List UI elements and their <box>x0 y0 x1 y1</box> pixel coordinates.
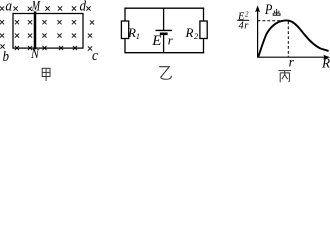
svg-text:c: c <box>92 48 99 64</box>
wire right branch <box>203 8 205 21</box>
magnetic field crosses row 4 <box>0 44 92 50</box>
svg-text:N: N <box>30 47 40 62</box>
svg-text:r: r <box>168 33 174 48</box>
caption yi <box>159 67 171 80</box>
svg-text:P: P <box>264 1 272 17</box>
wire middle branch upper <box>163 8 165 30</box>
magnetic field crosses row 3 <box>0 34 92 38</box>
magnetic field crosses row 1 <box>0 6 91 10</box>
svg-text:R: R <box>127 25 136 40</box>
y axis <box>257 8 259 57</box>
rod MN <box>34 11 37 49</box>
svg-text:M: M <box>31 0 41 14</box>
svg-text:R: R <box>321 56 330 71</box>
svg-text:R: R <box>185 25 194 40</box>
caption jia <box>42 68 50 81</box>
magnetic field crosses row 2 <box>0 20 94 24</box>
svg-text:2: 2 <box>194 31 199 41</box>
svg-text:d: d <box>80 0 87 14</box>
svg-text:1: 1 <box>136 31 140 41</box>
power curve <box>258 20 328 56</box>
dashed peak line <box>287 22 289 57</box>
resistor R2 <box>200 21 207 39</box>
svg-text:2: 2 <box>245 10 249 18</box>
svg-text:E: E <box>151 33 161 49</box>
x axis <box>257 56 328 58</box>
wire middle branch lower <box>163 35 165 53</box>
svg-text:b: b <box>3 49 9 65</box>
resistor R1 <box>121 21 128 39</box>
svg-text:r: r <box>244 20 249 31</box>
wire top rail <box>124 7 204 9</box>
battery short plate <box>160 32 168 35</box>
caption bing <box>278 71 291 83</box>
battery E r : long plate <box>156 29 173 31</box>
wire left branch <box>124 8 126 21</box>
dashed level line <box>258 20 290 22</box>
wire bottom rail <box>124 52 204 54</box>
svg-text:r: r <box>289 55 295 70</box>
svg-text:a: a <box>5 0 12 14</box>
rail loop abcd <box>13 14 83 49</box>
